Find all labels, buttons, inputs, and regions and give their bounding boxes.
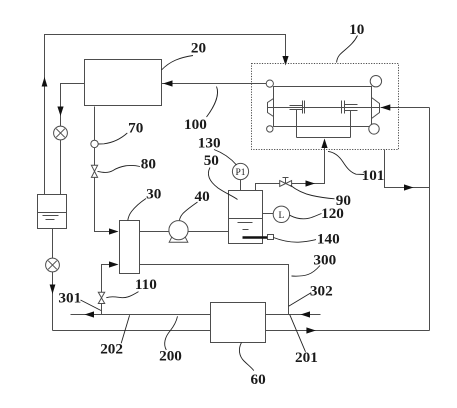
shut-off symbol (circle-X) lower [46, 258, 60, 272]
leader 130 [214, 150, 237, 166]
leader 201 [290, 314, 306, 352]
svg-text:20: 20 [191, 40, 207, 57]
leader 301 [81, 300, 102, 311]
spray element left [290, 101, 305, 138]
wire: riser from tank up and across top to unit 10 inlet [45, 35, 286, 195]
shell middle tube line [268, 107, 380, 109]
arrow right into box 30 top port [109, 228, 119, 234]
unit 10 dashed boundary [252, 64, 399, 150]
tank (left accumulator) [38, 195, 67, 229]
svg-text:80: 80 [141, 155, 157, 172]
leader 90 [291, 185, 335, 198]
leader 300 [292, 266, 321, 277]
arrow down below valve [50, 285, 56, 295]
sensor 70 (small circle) [91, 140, 98, 147]
level sensor L (120) [263, 206, 290, 222]
svg-text:110: 110 [135, 276, 157, 293]
svg-text:202: 202 [100, 341, 123, 358]
arrow up on riser [42, 77, 48, 87]
arrow up into collector [321, 139, 327, 149]
arrow left from port 302 [301, 311, 311, 317]
leader 60 [239, 342, 253, 370]
leader 302 [289, 293, 312, 307]
leader 70 [98, 133, 127, 144]
svg-text:302: 302 [310, 282, 333, 299]
arrow down on condensate line [57, 107, 63, 117]
wire: right vertical return line [429, 108, 431, 331]
nozzle circle top-left [266, 80, 273, 87]
svg-text:L: L [278, 211, 284, 221]
svg-text:140: 140 [317, 231, 340, 248]
leader 100 [207, 87, 218, 118]
leader 50 [208, 168, 237, 200]
arrow left into condenser 20 [163, 80, 173, 86]
svg-text:60: 60 [251, 371, 267, 388]
arrow down into unit 10 top [282, 56, 288, 66]
svg-text:130: 130 [198, 135, 221, 152]
wire: unit 10 top-left nozzle to condenser 20 [162, 83, 267, 85]
svg-text:101: 101 [362, 167, 385, 184]
tank 50 [229, 191, 263, 244]
svg-text:40: 40 [195, 188, 211, 205]
leader 140 [273, 238, 316, 243]
leader 110 [106, 292, 138, 298]
wire: box 30 to tank 50 via pump 40 [140, 231, 229, 233]
shut-off symbol (circle-X) upper [54, 126, 68, 140]
left cone [268, 99, 274, 117]
condenser 20 [85, 60, 162, 106]
wire: lower pipe 200 bottom line [53, 330, 430, 332]
leader 200 [165, 316, 178, 350]
nozzle circle bottom-right [369, 124, 379, 134]
leader 101 [328, 151, 364, 174]
svg-text:70: 70 [128, 120, 144, 137]
arrow right on lower pipe [306, 327, 316, 333]
leader 10 [337, 36, 358, 63]
svg-text:301: 301 [58, 290, 81, 307]
heater 140 (bar and terminal) [243, 235, 274, 240]
svg-text:30: 30 [146, 186, 162, 203]
heat exchanger shell [274, 87, 372, 127]
pressure gauge P1 (130) [232, 163, 248, 190]
wire: condenser 20 left outlet down to tank [61, 84, 85, 195]
nozzle circle bottom-left [267, 126, 273, 132]
arrow left toward port 301 [85, 311, 95, 317]
leader 202 [121, 315, 129, 343]
svg-text:201: 201 [295, 349, 318, 366]
svg-text:50: 50 [204, 152, 220, 169]
valve 80 [91, 165, 97, 177]
leader 80 [98, 165, 141, 172]
arrow right into box 30 bottom port [109, 261, 119, 267]
svg-text:200: 200 [159, 348, 182, 365]
svg-text:120: 120 [321, 205, 344, 222]
wire: tank bottom down to lower pipe [52, 229, 54, 331]
arrow right on drain link [404, 184, 414, 190]
pump 40 [169, 221, 188, 243]
wire: tank 50 vapor line through valve 90 up to collector (line 101) [256, 140, 325, 191]
wire: upper pipe (ports 301/302) [71, 314, 321, 316]
valve 90 with stem [280, 178, 292, 187]
wire: condenser 20 bottom line down through sensor 70 and valve 80 to box 30 [95, 107, 118, 232]
valve 110 [98, 292, 104, 303]
wire: drain from unit 10 bottom to right vertical line [385, 150, 430, 188]
leader lines [81, 36, 365, 371]
svg-text:10: 10 [349, 21, 365, 38]
wire: valve 110 branch from upper pipe to box 30 [102, 265, 118, 315]
svg-text:P1: P1 [235, 168, 245, 178]
heat exchange unit 60 [211, 303, 266, 343]
box 30 [120, 221, 140, 274]
wire: line 300 from box 30 to upper pipe junction [140, 265, 289, 315]
arrow left into right cone [381, 104, 391, 110]
spray element right [342, 101, 358, 138]
svg-text:100: 100 [184, 116, 207, 133]
collector bottom line [297, 137, 351, 139]
leader 120 [290, 214, 322, 219]
svg-text:300: 300 [313, 252, 336, 269]
nozzle circle top-right [370, 76, 381, 87]
leader 30 [128, 199, 146, 221]
leader 20 [162, 56, 194, 71]
leader 40 [180, 202, 198, 220]
wire: inlet into unit 10 right cone [381, 107, 430, 109]
right cone [372, 98, 380, 119]
arrow right after valve 90 [306, 180, 316, 186]
